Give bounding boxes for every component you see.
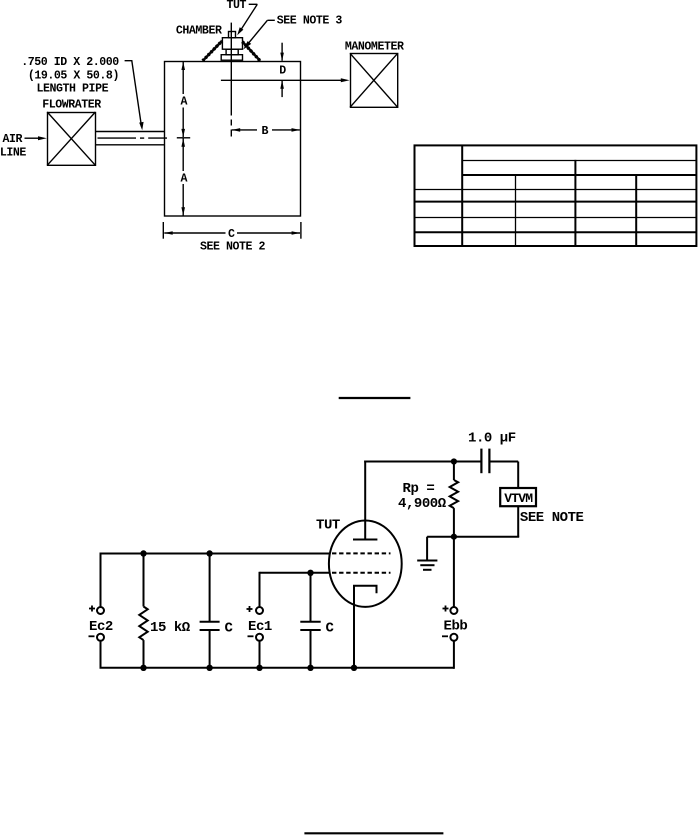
plenum box <box>165 62 301 217</box>
junction dot grid1 / C2 <box>307 570 313 576</box>
junction dot bottom bus / cathode <box>351 665 357 671</box>
pipe centerline tick <box>177 137 190 139</box>
tube plate lead <box>364 461 366 540</box>
tube cathode <box>354 586 377 668</box>
wire: bottom bus <box>100 667 455 669</box>
ground <box>417 537 437 570</box>
svg-text:Ec1: Ec1 <box>248 619 272 635</box>
svg-text:LINE: LINE <box>0 147 26 160</box>
wire: Ebb upper lead <box>453 537 455 607</box>
wire: top bus (grid 2) <box>101 553 331 555</box>
svg-text:SEE NOTE 2: SEE NOTE 2 <box>200 240 266 253</box>
plus sign Ec1 <box>247 606 253 612</box>
dimension D <box>280 43 284 97</box>
svg-text:.750 ID X 2.000: .750 ID X 2.000 <box>21 56 119 69</box>
table column divider 3 <box>574 160 576 246</box>
terminal Ec2 + <box>97 607 104 614</box>
resistor Rp <box>450 462 458 537</box>
right strut (hatched) <box>242 41 261 61</box>
junction dot bottom bus / 15k <box>140 665 146 671</box>
svg-text:CHAMBER: CHAMBER <box>176 24 222 37</box>
pipe label leader <box>125 61 144 131</box>
table header row line 1 <box>462 160 696 162</box>
svg-text:(19.05 X 50.8): (19.05 X 50.8) <box>28 69 119 82</box>
svg-text:SEE NOTE 3: SEE NOTE 3 <box>277 14 343 27</box>
wire: grid1 bus <box>260 572 331 574</box>
chamber base <box>221 55 242 61</box>
table outer border <box>415 145 697 246</box>
wire: Ebb to bottom bus <box>453 641 455 669</box>
tube grid 2 (dashed) <box>332 552 391 554</box>
dimension B <box>232 128 300 132</box>
wire: cap to VTVM <box>489 461 518 463</box>
dimension C <box>164 231 300 235</box>
chamber body <box>222 38 242 50</box>
svg-text:Ec2: Ec2 <box>89 619 113 635</box>
capacitor 1.0 uF <box>481 449 489 474</box>
table header row line 2 <box>462 174 696 176</box>
wire: Ec2 down lead <box>100 553 102 608</box>
tube grid 1 (dashed) <box>332 572 391 574</box>
minus sign Ebb <box>442 635 448 637</box>
svg-text:B: B <box>262 125 269 138</box>
table row line 1 <box>415 189 697 191</box>
svg-text:1.0 µF: 1.0 µF <box>468 431 516 447</box>
svg-text:C: C <box>326 621 335 637</box>
plus sign Ebb <box>443 606 449 612</box>
junction dot bottom bus / Ec1 <box>256 665 262 671</box>
chamber lower collar <box>226 49 238 55</box>
svg-text:TUT: TUT <box>227 0 247 12</box>
tube TUT envelope <box>329 521 402 607</box>
SEE NOTE 3 leader <box>243 20 275 49</box>
capacitor C1 <box>200 554 220 668</box>
junction dot top bus / C1 <box>206 550 212 556</box>
dimension A top <box>181 62 185 138</box>
resistor 15 kOhm <box>139 554 147 668</box>
VTVM box <box>500 488 536 506</box>
wire: lower return <box>427 536 519 538</box>
left strut (hatched) <box>202 41 222 62</box>
manometer line <box>221 78 350 82</box>
svg-text:LENGTH PIPE: LENGTH PIPE <box>37 83 109 96</box>
wire: VTVM bottom lead <box>517 506 519 537</box>
table row line 3 <box>415 217 697 219</box>
table row line 2 <box>415 201 697 203</box>
svg-text:SEE NOTE: SEE NOTE <box>520 510 584 526</box>
minus sign Ec2 <box>89 635 95 637</box>
manometer box <box>350 53 398 107</box>
table column divider 1 <box>461 145 463 246</box>
tube plate bar <box>353 539 377 541</box>
wire: Ec1 to bottom bus <box>259 641 261 668</box>
svg-text:C: C <box>228 228 235 241</box>
chamber centerline <box>230 23 232 137</box>
junction dot plate bus / Rp <box>451 458 457 464</box>
wire: Ec1 down lead <box>259 572 261 607</box>
TUT leader <box>237 4 257 35</box>
table row line 4 <box>415 231 697 233</box>
bottom separator line <box>304 832 443 834</box>
svg-text:FLOWRATER: FLOWRATER <box>42 98 101 111</box>
wire: plate top bus <box>364 461 481 463</box>
chamber stack: TUT socket <box>229 32 236 38</box>
terminal Ec1 - <box>256 634 263 641</box>
table column divider 2 <box>515 175 517 246</box>
air line label <box>0 133 26 160</box>
svg-text:C: C <box>225 621 234 637</box>
svg-text:A: A <box>181 172 188 185</box>
terminal Ec2 - <box>97 634 104 641</box>
svg-text:15 kΩ: 15 kΩ <box>150 620 191 636</box>
dimension C extension lines <box>163 222 301 239</box>
terminal Ec1 + <box>256 607 263 614</box>
plus sign Ec2 <box>89 606 95 612</box>
svg-text:D: D <box>279 64 286 77</box>
wire: VTVM down lead <box>517 462 519 489</box>
svg-text:Rp =: Rp = <box>403 481 435 497</box>
pipe size label <box>21 56 119 96</box>
svg-text:TUT: TUT <box>316 518 340 534</box>
figure separator line <box>339 397 411 399</box>
junction dot bottom bus / C1 <box>206 665 212 671</box>
air line arrow <box>25 136 47 140</box>
svg-text:Ebb: Ebb <box>444 618 468 634</box>
svg-text:AIR: AIR <box>3 133 23 146</box>
junction dot bottom bus / C2 <box>307 665 313 671</box>
pipe <box>95 132 164 145</box>
junction dot top bus / 15k <box>140 550 146 556</box>
svg-text:MANOMETER: MANOMETER <box>345 40 404 53</box>
svg-text:VTVM: VTVM <box>504 491 533 506</box>
dimension A bottom <box>181 138 185 215</box>
junction dot Rp bottom <box>451 534 457 540</box>
wire: Ec2 to bottom bus <box>100 641 102 668</box>
terminal Ebb - <box>450 634 457 641</box>
flowrater box <box>47 112 95 165</box>
pipe centerline <box>98 137 168 139</box>
table column divider 4 <box>635 175 637 246</box>
svg-text:A: A <box>181 95 188 108</box>
svg-text:4,900Ω: 4,900Ω <box>398 496 447 512</box>
terminal Ebb + <box>450 607 457 614</box>
minus sign Ec1 <box>248 635 254 637</box>
capacitor C2 <box>300 573 320 668</box>
